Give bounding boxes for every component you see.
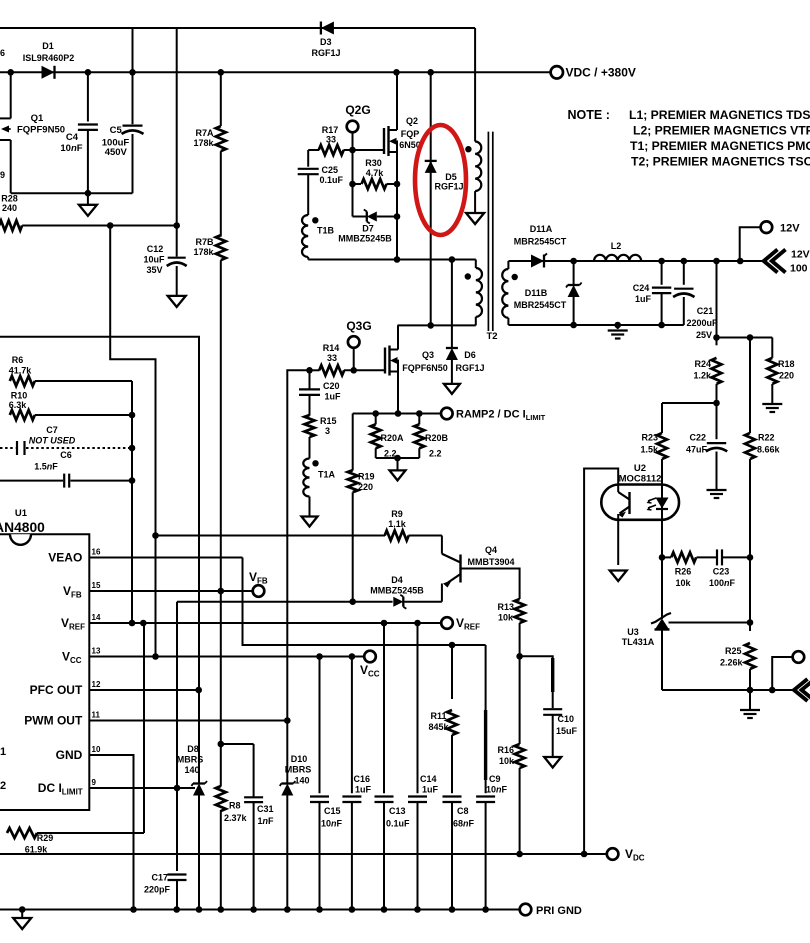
resistor R8 2.37k (216, 744, 248, 910)
resistor R30 4.7k (353, 158, 398, 189)
svg-text:1uF: 1uF (422, 785, 439, 795)
svg-text:RGF1J: RGF1J (455, 363, 484, 373)
ground below R18 (762, 404, 782, 412)
resistor R15 3 (305, 415, 337, 459)
pin 10 GND (56, 745, 134, 910)
svg-text:PFC OUT: PFC OUT (30, 683, 83, 697)
resistor R26 10k (671, 552, 696, 588)
terminal PRI GND (520, 904, 582, 917)
svg-text:10nF: 10nF (321, 819, 343, 829)
ground on secondary bottom rail (608, 325, 628, 339)
svg-text:R20A: R20A (381, 433, 405, 443)
svg-text:VEAO: VEAO (48, 551, 82, 565)
svg-text:C14: C14 (420, 774, 437, 784)
svg-text:100nF: 100nF (709, 578, 736, 588)
svg-text:1uF: 1uF (355, 785, 372, 795)
svg-text:T2: T2 (486, 331, 497, 342)
svg-text:10nF: 10nF (486, 785, 508, 795)
left edge pin number 2 (0, 780, 6, 792)
svg-text:T1A: T1A (318, 470, 336, 480)
resistor R24 1.2k (693, 358, 721, 403)
capacitor C25 0.1uF (298, 150, 344, 215)
svg-text:D6: D6 (464, 350, 476, 360)
svg-text:47uF: 47uF (686, 445, 708, 455)
terminal VDC sense (607, 847, 645, 863)
transistor Q2 FQP 6N50 MOSFET (384, 116, 421, 156)
svg-text:T2; PREMIER MAGNETICS TSC1: T2; PREMIER MAGNETICS TSC1 (631, 155, 810, 169)
pin 16 VEAO (48, 548, 242, 565)
wire Q2 gate drive y=150 (308, 147, 384, 154)
ground below opto emitter (610, 571, 627, 582)
terminal output sense (cut) (793, 651, 805, 663)
svg-text:9: 9 (92, 778, 97, 787)
svg-text:R18: R18 (778, 359, 795, 369)
svg-text:R6: R6 (12, 355, 24, 365)
svg-text:R9: R9 (391, 509, 403, 519)
svg-text:PWM OUT: PWM OUT (24, 714, 83, 728)
svg-text:MMBT3904: MMBT3904 (467, 557, 514, 567)
zener diode D4 MMBZ5245B (177, 575, 442, 609)
svg-text:C9: C9 (489, 774, 501, 784)
svg-text:12V: 12V (791, 249, 810, 261)
wire Q2G column down to R30 and D7 (349, 150, 356, 217)
svg-text:1.1k: 1.1k (388, 519, 407, 529)
svg-text:NOT USED: NOT USED (29, 436, 76, 446)
svg-text:2: 2 (0, 780, 6, 792)
wire R20A/R20B common (376, 455, 420, 471)
resistor R20B 2.2 (414, 414, 424, 459)
svg-text:Q2G: Q2G (345, 103, 370, 117)
wire riser to output terminal (772, 657, 792, 690)
svg-text:R28: R28 (1, 194, 18, 204)
svg-text:T1B: T1B (317, 226, 335, 236)
capacitor C16 1uF leg (342, 657, 371, 910)
wire top rail y=28 (0, 27, 475, 29)
svg-text:C25: C25 (322, 165, 339, 175)
svg-text:2200uF: 2200uF (686, 318, 718, 328)
wire elbow from R28 node down and right to VCC column (110, 226, 155, 657)
ground below T2 upper winding (466, 191, 484, 224)
svg-text:C31: C31 (257, 804, 274, 814)
resistor R25 2.26k (720, 557, 755, 690)
terminal Q3G (346, 319, 371, 348)
ground below C10 (544, 757, 561, 768)
svg-text:C22: C22 (689, 433, 706, 443)
resistor R20A 2.2 (371, 414, 381, 459)
wire bottom feedback rail y=690 (662, 687, 794, 694)
svg-text:FQPF9N50: FQPF9N50 (17, 125, 65, 136)
resistor R17 33 (319, 125, 344, 155)
red highlight ellipse around D5 (415, 125, 466, 235)
svg-text:C5: C5 (110, 125, 123, 136)
svg-text:D5: D5 (445, 172, 457, 182)
wire Q1 drain up to rail (10, 72, 12, 118)
wire secondary bottom rail y=325 (508, 322, 683, 329)
resistor R22 8.66k (745, 338, 781, 558)
svg-text:240: 240 (2, 203, 17, 213)
wire VDC rail y=854 (0, 851, 606, 858)
svg-text:33: 33 (327, 353, 337, 363)
pin 11 PWM OUT (24, 711, 290, 728)
capacitor C23 100nF (709, 549, 736, 588)
transistor Q3 FQPF6N50 MOSFET (385, 346, 448, 376)
inductor T1A winding (303, 459, 335, 517)
wire D3 corner down to T2 upper winding (474, 28, 476, 142)
diode D8 MBRS 140 (177, 690, 207, 910)
svg-text:TL431A: TL431A (622, 637, 655, 647)
svg-text:MBRS: MBRS (177, 755, 204, 765)
svg-text:11: 11 (92, 711, 101, 720)
svg-text:FQPF6N50: FQPF6N50 (402, 363, 448, 373)
diode D1 ISL9R460P2 (23, 41, 75, 79)
svg-text:U1: U1 (15, 508, 28, 519)
resistor R10 6.3k (9, 391, 132, 421)
inductor L2 (594, 241, 641, 261)
ground below C4 (79, 193, 97, 216)
label R20A (381, 433, 405, 459)
pin 13 VCC (62, 647, 364, 666)
terminal VREF (441, 616, 480, 632)
svg-text:Q4: Q4 (485, 545, 497, 555)
wire Q3G stem (353, 348, 355, 371)
capacitor C12 10uF 35V (143, 244, 186, 296)
svg-text:10k: 10k (499, 756, 515, 766)
svg-text:D11B: D11B (525, 288, 548, 298)
svg-text:R13: R13 (497, 602, 514, 612)
svg-text:C17: C17 (151, 873, 168, 883)
wire opto collector bridge (584, 469, 618, 855)
svg-text:RGF1J: RGF1J (311, 48, 340, 58)
svg-text:1.5k: 1.5k (640, 445, 659, 455)
svg-text:15: 15 (92, 581, 101, 590)
capacitor C8 68nF (443, 797, 475, 910)
ground below T1A (302, 517, 318, 527)
svg-text:14: 14 (92, 613, 101, 622)
IC U1 FAN4800 outline (0, 508, 89, 810)
svg-text:4.7k: 4.7k (366, 168, 385, 178)
svg-text:D11A: D11A (530, 224, 553, 234)
svg-text:D8: D8 (187, 744, 199, 754)
resistor R9 1.1k (385, 509, 409, 541)
svg-text:C12: C12 (147, 244, 164, 254)
wire R9 row y=535.5 (156, 535, 442, 537)
terminal VCC (360, 651, 380, 679)
wire 12V terminal riser (740, 227, 761, 261)
svg-text:0.1uF: 0.1uF (320, 175, 344, 185)
svg-text:R8: R8 (229, 801, 241, 811)
svg-text:ISL9R460P2: ISL9R460P2 (23, 53, 75, 63)
wire Q3 drain up (397, 325, 399, 349)
pin 12 PFC OUT (30, 680, 202, 697)
svg-text:450V: 450V (105, 147, 128, 158)
wire secondary top rail y=261 (508, 258, 763, 265)
svg-text:9: 9 (0, 170, 5, 180)
resistor R19 220 (348, 414, 375, 602)
svg-text:12V: 12V (780, 223, 800, 235)
svg-text:1: 1 (0, 746, 6, 758)
pin 14 VREF (61, 613, 442, 632)
svg-text:R24: R24 (694, 359, 711, 369)
svg-text:R25: R25 (725, 646, 742, 656)
wire Q2 source down (394, 141, 401, 263)
svg-text:33: 33 (326, 135, 336, 145)
svg-text:C15: C15 (324, 806, 341, 816)
svg-text:R16: R16 (497, 745, 514, 755)
svg-text:U2: U2 (634, 463, 646, 474)
svg-text:L2; PREMIER MAGNETICS VTP0: L2; PREMIER MAGNETICS VTP0 (633, 124, 810, 138)
wire R23/C22 node y=403 (662, 400, 720, 407)
svg-text:140: 140 (294, 776, 309, 786)
svg-text:VDC / +380V: VDC / +380V (566, 66, 636, 80)
wire Q2 drain up to rail (396, 72, 398, 130)
svg-text:41.7k: 41.7k (9, 366, 33, 376)
left edge fragment 6 (0, 48, 5, 58)
T2 lower primary winding (465, 260, 482, 326)
wire main rail y=72 to VDC terminal (0, 71, 551, 73)
svg-text:100: 100 (790, 263, 808, 275)
svg-text:15uF: 15uF (556, 726, 578, 736)
svg-text:D4: D4 (391, 575, 403, 585)
svg-text:R15: R15 (320, 416, 337, 426)
resistor R18 220 (767, 338, 794, 404)
resistor R23 1.5k (640, 403, 667, 497)
svg-text:1uF: 1uF (325, 392, 342, 402)
svg-text:C23: C23 (713, 567, 730, 577)
svg-text:RGF1J: RGF1J (434, 182, 463, 192)
wire Q2G stem to gate wire (352, 132, 354, 150)
svg-text:D3: D3 (320, 37, 332, 47)
pin 9 DC ILIMIT (38, 778, 195, 797)
svg-text:0.1uF: 0.1uF (386, 819, 410, 829)
svg-text:D1: D1 (42, 41, 54, 51)
svg-text:R7B: R7B (195, 237, 214, 247)
svg-text:R10: R10 (11, 391, 28, 401)
svg-text:MBRS: MBRS (285, 765, 312, 775)
T2 secondary winding (486, 261, 517, 342)
svg-text:L2: L2 (611, 241, 622, 251)
svg-text:10uF: 10uF (143, 255, 165, 265)
svg-text:16: 16 (92, 548, 101, 557)
wire R7B down to VFB wire and R8 node (220, 260, 222, 744)
svg-text:R17: R17 (322, 125, 339, 135)
svg-text:MBR2545CT: MBR2545CT (514, 237, 567, 247)
svg-text:MMBZ5245B: MMBZ5245B (338, 234, 392, 244)
resistor R29 61.9k (7, 828, 144, 855)
optocoupler U2 MOC8112 package (601, 463, 679, 520)
capacitor C22 47uF (686, 403, 727, 489)
node R9-wire tap on x=155.5 (152, 532, 159, 539)
resistor R28 240 (0, 194, 180, 231)
svg-text:T1; PREMIER MAGNETICS PMGD: T1; PREMIER MAGNETICS PMGD (630, 139, 810, 153)
node main rail junctions (7, 69, 434, 76)
svg-text:R30: R30 (365, 158, 382, 168)
wire R26/C23 node row y=557.4 (659, 554, 754, 561)
svg-text:2.2: 2.2 (429, 449, 442, 459)
left edge pin number 1 (0, 746, 6, 758)
svg-text:1.2k: 1.2k (693, 371, 712, 381)
svg-text:13: 13 (92, 647, 101, 656)
svg-text:3: 3 (325, 426, 330, 436)
terminal VDC / +380V (551, 66, 636, 80)
terminal 12V (761, 221, 801, 234)
svg-text:U3: U3 (627, 627, 639, 637)
svg-text:10nF: 10nF (60, 143, 82, 154)
svg-text:R19: R19 (358, 472, 375, 482)
note text block (568, 108, 810, 169)
resistor R7A 178k (193, 72, 225, 151)
svg-text:10k: 10k (675, 578, 691, 588)
wire TL431 ref to R25 column (669, 619, 754, 626)
diode D11B MBR2545CT (514, 261, 582, 325)
terminal VFB (249, 570, 268, 597)
svg-text:Q3: Q3 (422, 350, 434, 360)
wire vertical x=176.7 top rail to R28 node (176, 28, 178, 257)
resistor R6 41.7k (9, 355, 132, 386)
capacitor C14 1uF leg (408, 623, 439, 910)
ground below C12 (168, 296, 186, 307)
opto LED (648, 497, 669, 557)
resistor R11 845k (428, 645, 457, 793)
wire T1B bottom to T2 primary (308, 256, 476, 263)
transistor Q1 FQPF9N50 (cut at left edge) (0, 113, 65, 140)
svg-text:R14: R14 (323, 343, 340, 353)
svg-text:R23: R23 (641, 433, 658, 443)
svg-text:1uF: 1uF (635, 294, 652, 304)
wire R7A to R7B (220, 151, 222, 237)
svg-text:220: 220 (358, 482, 373, 492)
svg-text:10k: 10k (498, 613, 514, 623)
ground at PRI GND rail left (13, 910, 31, 930)
diode D10 MBRS 140 (280, 721, 311, 910)
capacitor C7 NOT USED (dotted) (0, 425, 132, 455)
svg-text:C13: C13 (389, 806, 406, 816)
wire R8/C31 row y=744 (218, 741, 254, 748)
wire upper primary feed / T2 upper winding (465, 142, 481, 192)
svg-text:178k: 178k (193, 247, 214, 257)
svg-text:C4: C4 (66, 132, 79, 143)
svg-text:35V: 35V (146, 265, 162, 275)
wire vertical x=132.5 top rail to main rail (132, 28, 134, 72)
wire Q1 source down to bottom rail (10, 140, 12, 193)
svg-text:C20: C20 (323, 381, 340, 391)
diode D5 RGF1J (425, 72, 464, 325)
wire R24 column from rail (713, 261, 720, 345)
resistor R13 10k (497, 599, 524, 660)
svg-text:MBR2545CT: MBR2545CT (514, 300, 567, 310)
shunt regulator U3 TL431A (622, 557, 671, 690)
svg-text:25V: 25V (696, 330, 712, 340)
svg-text:D10: D10 (291, 754, 308, 764)
wire Q3 source down (395, 361, 402, 417)
svg-text:140: 140 (184, 765, 199, 775)
svg-text:D7: D7 (362, 224, 374, 234)
opto phototransistor (618, 492, 629, 565)
svg-text:220: 220 (779, 371, 794, 381)
ground below R20 pair (390, 470, 406, 480)
svg-text:R26: R26 (675, 567, 692, 577)
svg-text:2.26k: 2.26k (720, 658, 744, 668)
wire junction row y=337.5 (717, 334, 773, 341)
resistor R14 33 (319, 343, 344, 375)
svg-text:C10: C10 (558, 714, 575, 724)
svg-text:R11: R11 (430, 711, 446, 721)
wire PRI GND rail y=909.5 (0, 906, 519, 913)
svg-text:Q1: Q1 (31, 113, 44, 124)
svg-text:R7A: R7A (195, 128, 214, 138)
wire RAMP2 row y=413.5 (353, 410, 441, 417)
svg-text:2.37k: 2.37k (224, 813, 248, 823)
wire R13/R16 node to C10 (520, 656, 553, 708)
diode D11A MBR2545CT (514, 224, 567, 268)
svg-text:12: 12 (92, 680, 101, 689)
T2 core lines (488, 132, 492, 331)
svg-text:C16: C16 (354, 774, 371, 784)
wire D4 left column x=177 (176, 602, 178, 871)
ground below D6 (444, 384, 460, 394)
capacitor C6 1.5nF (0, 450, 132, 488)
wire Q3 drain rail y=325 (398, 322, 476, 329)
inductor T1B winding (302, 215, 335, 260)
transistor Q4 MMBT3904 (442, 536, 515, 602)
svg-text:68nF: 68nF (453, 819, 475, 829)
svg-text:845k: 845k (428, 722, 449, 732)
wire compensation bus x=132 (129, 381, 136, 623)
wire R29 riser to VREF pin (143, 623, 145, 833)
svg-text:6.3k: 6.3k (9, 400, 28, 410)
svg-text:FQP: FQP (401, 129, 420, 139)
svg-text:NOTE :: NOTE : (568, 108, 610, 122)
svg-text:L1; PREMIER MAGNETICS TDSP: L1; PREMIER MAGNETICS TDSP (629, 108, 810, 122)
wire bottom rail of boost y=193 (11, 190, 133, 197)
zener diode D7 MMBZ5245B (338, 210, 397, 244)
capacitor C4 10nF (60, 72, 98, 193)
svg-text:C21: C21 (697, 306, 714, 316)
capacitor C15 10nF leg (310, 657, 343, 910)
svg-text:MOC8112: MOC8112 (619, 474, 662, 485)
capacitor C9 10nF leg (476, 645, 507, 910)
svg-text:Q3G: Q3G (346, 319, 371, 333)
capacitor C31 1nF (244, 744, 274, 910)
capacitor C5 100uF 450V (102, 72, 144, 193)
diode D3 RGF1J on top rail (311, 22, 340, 59)
capacitor C17 220pF (144, 873, 187, 910)
svg-text:6: 6 (0, 48, 5, 58)
wire VEAO loop (243, 558, 486, 649)
terminal RAMP2 / DC ILIMIT (441, 408, 546, 422)
wire Q3 gate drive y=370.3 (310, 367, 386, 374)
capacitor C13 0.1uF leg (375, 623, 411, 910)
svg-text:Q2: Q2 (406, 116, 418, 126)
capacitor C20 1uF (299, 370, 341, 415)
svg-text:C8: C8 (457, 806, 469, 816)
terminal Q2G (345, 103, 370, 132)
svg-text:PRI GND: PRI GND (536, 905, 582, 917)
svg-text:1.5nF: 1.5nF (34, 462, 58, 472)
svg-text:MMBZ5245B: MMBZ5245B (370, 586, 424, 596)
offpage chevron return (794, 679, 810, 701)
svg-text:R22: R22 (758, 433, 775, 443)
ground below R25 (740, 690, 760, 718)
svg-text:R29: R29 (37, 833, 54, 843)
svg-text:C7: C7 (46, 425, 58, 435)
offpage chevron 12V output (764, 249, 810, 275)
capacitor C21 2200uF 25V (673, 261, 718, 340)
svg-text:FAN4800: FAN4800 (0, 520, 45, 535)
wire long rail y=336.8 to PFC column (0, 337, 199, 690)
svg-text:R20B: R20B (425, 433, 449, 443)
diode D6 RGF1J (446, 260, 485, 384)
label R20B (425, 433, 449, 459)
